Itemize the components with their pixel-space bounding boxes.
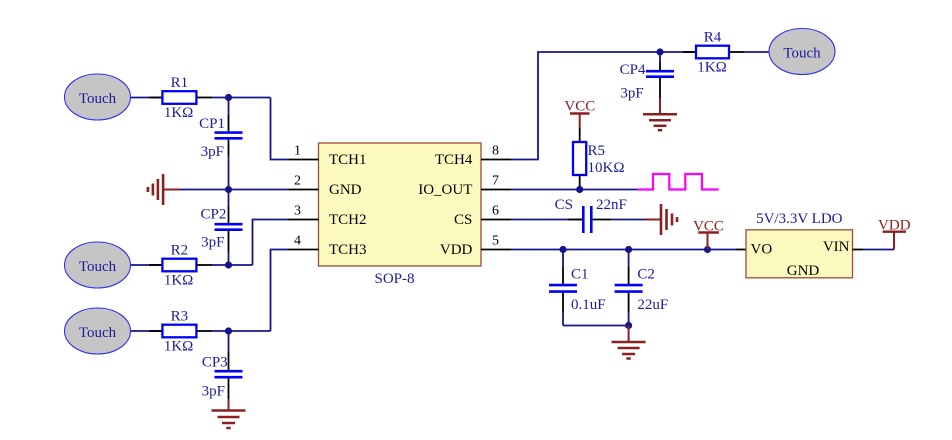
svg-text:1KΩ: 1KΩ — [164, 272, 193, 288]
resistor R5 — [573, 142, 624, 176]
svg-text:8: 8 — [492, 144, 499, 159]
pin lead right of R3 — [196, 330, 212, 332]
wire pin6 to CS cap — [511, 219, 582, 221]
wire node D to pin4 — [271, 250, 289, 332]
ground (earth) under CP3 — [212, 399, 246, 428]
svg-text:CP3: CP3 — [202, 355, 228, 371]
svg-text:5V/3.3V LDO: 5V/3.3V LDO — [756, 211, 843, 227]
svg-text:CS: CS — [454, 212, 472, 228]
pin lead below R5 — [579, 175, 581, 190]
junction node J — [625, 322, 632, 329]
svg-text:1KΩ: 1KΩ — [164, 338, 193, 354]
resistor R1 — [162, 75, 196, 121]
wire pin7 IO_OUT — [511, 189, 638, 191]
svg-text:6: 6 — [492, 204, 499, 219]
wire node A to pin1 — [271, 98, 289, 160]
svg-text:R5: R5 — [588, 143, 606, 159]
svg-text:Touch: Touch — [79, 91, 117, 107]
svg-text:7: 7 — [492, 174, 499, 189]
capacitor CS 22nF — [555, 197, 627, 233]
regulator U2 LDO — [746, 211, 853, 279]
svg-text:TCH1: TCH1 — [329, 152, 367, 168]
svg-text:VIN: VIN — [823, 239, 850, 255]
pin 8 — [481, 144, 511, 160]
power VCC (R5) — [564, 99, 595, 129]
svg-text:1KΩ: 1KΩ — [697, 59, 726, 75]
wire T1 to R1 — [131, 97, 163, 99]
wire R4 to T4 — [744, 51, 770, 53]
resistor R3 — [162, 309, 196, 355]
svg-text:4: 4 — [294, 234, 301, 249]
svg-text:3pF: 3pF — [201, 235, 224, 251]
svg-text:22uF: 22uF — [637, 297, 668, 313]
ground (signal) right of CS — [645, 204, 677, 235]
svg-text:VCC: VCC — [564, 99, 595, 115]
ground (signal) left — [148, 174, 180, 205]
svg-text:10KΩ: 10KΩ — [588, 160, 625, 176]
junction node I (VCC) — [704, 246, 711, 253]
pin lead right of R1 — [196, 97, 212, 99]
svg-text:22nF: 22nF — [596, 197, 627, 213]
svg-text:VO: VO — [751, 242, 773, 258]
resistor R2 — [162, 243, 196, 289]
pin lead left of R2 — [149, 264, 162, 266]
svg-text:Touch: Touch — [783, 46, 821, 62]
pin 2 — [289, 174, 319, 190]
svg-text:Touch: Touch — [79, 325, 117, 341]
svg-text:C2: C2 — [637, 266, 655, 282]
pin lead left of R4 — [683, 51, 696, 53]
wire T2 to R2 — [131, 264, 163, 266]
capacitor CP2 — [201, 190, 243, 266]
svg-text:3pF: 3pF — [202, 384, 225, 400]
svg-text:3: 3 — [294, 204, 301, 219]
wire node E to R4 — [660, 51, 696, 53]
svg-text:R1: R1 — [171, 75, 189, 91]
pin 6 — [481, 204, 511, 220]
touch pad T2 — [65, 242, 131, 288]
svg-text:CP1: CP1 — [199, 116, 225, 132]
junction node H (C2) — [625, 246, 632, 253]
pin 5 — [481, 234, 511, 250]
junction node G (C1) — [559, 246, 566, 253]
capacitor CP1 — [199, 98, 242, 190]
wire CS cap to ground — [611, 219, 645, 221]
svg-text:R3: R3 — [171, 309, 189, 325]
svg-text:TCH3: TCH3 — [329, 242, 367, 258]
waveform IO_OUT — [638, 174, 719, 190]
pin lead VO — [736, 249, 746, 251]
pin lead right of R2 — [196, 264, 212, 266]
touch pad T4 — [769, 29, 835, 75]
pin lead above R5 — [579, 128, 581, 142]
pin lead right of R4 — [729, 51, 744, 53]
svg-text:GND: GND — [787, 263, 820, 279]
svg-text:2: 2 — [294, 174, 301, 189]
pin 7 — [481, 174, 511, 190]
IC U1 SOP-8 — [319, 143, 482, 287]
pin 4 — [289, 234, 319, 250]
wire pin5 VDD rail — [511, 249, 736, 251]
junction node E — [656, 48, 663, 55]
svg-text:CS: CS — [555, 197, 573, 213]
wire R3 to node D — [212, 330, 271, 332]
svg-text:CP4: CP4 — [620, 62, 646, 78]
wire node C to pin3 — [253, 220, 289, 266]
wire T3 to R3 — [131, 330, 163, 332]
wire pin8 to top node E — [511, 52, 660, 160]
pin lead right of CS cap — [593, 219, 611, 221]
pin lead left of R1 — [149, 97, 162, 99]
svg-text:3pF: 3pF — [620, 86, 643, 102]
wire R2 to node C — [212, 264, 253, 266]
pin lead VIN — [853, 249, 864, 251]
junction node F — [576, 186, 583, 193]
capacitor CP3 — [202, 331, 243, 400]
ground (earth) under C2 — [612, 326, 646, 359]
svg-text:1KΩ: 1KΩ — [164, 105, 193, 121]
pin 1 — [289, 144, 319, 160]
pin lead left of R3 — [149, 330, 162, 332]
ground (earth) under CP4 — [643, 98, 677, 130]
junction node B — [225, 186, 232, 193]
svg-text:TCH2: TCH2 — [329, 212, 367, 228]
power VCC (LDO) — [693, 219, 724, 250]
capacitor C2 — [615, 250, 669, 326]
junction node D — [225, 327, 232, 334]
svg-text:IO_OUT: IO_OUT — [418, 182, 472, 198]
svg-text:C1: C1 — [571, 266, 589, 282]
power VDD — [878, 218, 911, 250]
wire VIN to VDD — [863, 249, 894, 251]
svg-text:1: 1 — [294, 144, 301, 159]
resistor R4 — [696, 30, 729, 76]
svg-text:TCH4: TCH4 — [435, 152, 473, 168]
pin 3 — [289, 204, 319, 220]
svg-text:3pF: 3pF — [201, 144, 224, 160]
touch pad T3 — [65, 308, 131, 354]
svg-text:5: 5 — [492, 234, 499, 249]
wire R1 to node A — [212, 97, 271, 99]
capacitor C1 — [549, 250, 606, 326]
touch pad T1 — [65, 74, 131, 120]
svg-text:R2: R2 — [171, 243, 189, 259]
pin lead left of CS cap — [568, 219, 582, 221]
svg-text:GND: GND — [329, 182, 362, 198]
svg-text:VDD: VDD — [440, 242, 473, 258]
capacitor CP4 — [620, 52, 674, 102]
svg-text:Touch: Touch — [79, 259, 117, 275]
junction node C — [225, 261, 232, 268]
svg-text:CP2: CP2 — [201, 207, 227, 223]
svg-text:SOP-8: SOP-8 — [374, 271, 414, 287]
junction node A — [225, 94, 232, 101]
svg-text:0.1uF: 0.1uF — [571, 297, 606, 313]
wire ground to pin2 — [180, 189, 289, 191]
svg-text:R4: R4 — [704, 30, 722, 46]
wire C1 bottom to C2 bottom — [563, 325, 629, 327]
